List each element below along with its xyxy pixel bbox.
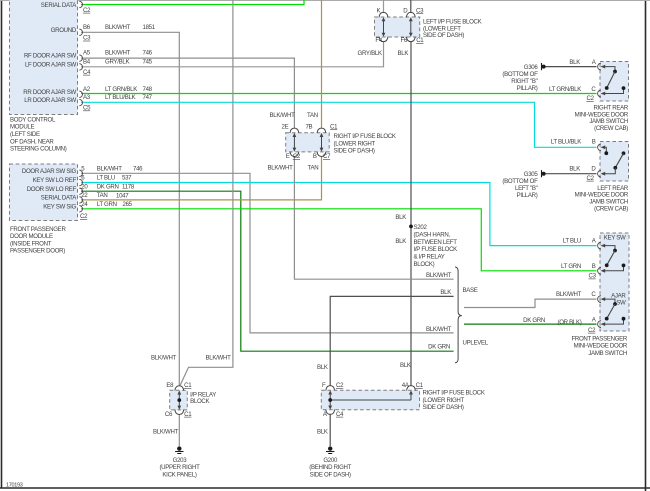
svg-text:PILLAR): PILLAR) xyxy=(517,85,538,92)
svg-text:C1: C1 xyxy=(184,411,192,418)
svg-text:1047: 1047 xyxy=(116,193,129,200)
svg-text:G200: G200 xyxy=(323,457,338,464)
svg-text:BLOCK: BLOCK xyxy=(190,398,209,405)
svg-text:C1: C1 xyxy=(416,382,424,389)
svg-text:(BOTTOM OF: (BOTTOM OF xyxy=(502,178,538,185)
svg-text:24: 24 xyxy=(81,201,88,208)
svg-text:I/P FUSE BLOCK: I/P FUSE BLOCK xyxy=(414,246,458,253)
svg-text:G203: G203 xyxy=(173,457,188,464)
svg-text:C2: C2 xyxy=(587,95,595,102)
svg-text:1178: 1178 xyxy=(122,183,135,190)
svg-text:265: 265 xyxy=(123,201,133,208)
svg-text:BLK/WHT: BLK/WHT xyxy=(153,429,179,436)
svg-text:BASE: BASE xyxy=(463,287,478,294)
svg-text:(LOWER RIGHT: (LOWER RIGHT xyxy=(423,397,465,404)
svg-text:LT GRN: LT GRN xyxy=(561,263,581,270)
svg-text:S202: S202 xyxy=(414,224,428,231)
svg-text:BLOCK): BLOCK) xyxy=(414,261,435,268)
svg-text:TAN: TAN xyxy=(308,165,319,172)
svg-text:LT BLU: LT BLU xyxy=(563,238,581,245)
svg-text:LT GRN/BLK: LT GRN/BLK xyxy=(105,86,137,93)
svg-text:BLK: BLK xyxy=(569,166,580,173)
svg-text:SIDE OF DASH): SIDE OF DASH) xyxy=(423,32,464,39)
svg-text:B: B xyxy=(313,153,317,160)
svg-text:(BOTTOM OF: (BOTTOM OF xyxy=(502,71,538,78)
svg-text:RR DOOR AJAR SW: RR DOOR AJAR SW xyxy=(23,89,76,96)
svg-text:DK GRN: DK GRN xyxy=(428,344,450,351)
svg-text:A2: A2 xyxy=(83,86,91,93)
svg-text:C2: C2 xyxy=(293,153,301,160)
svg-text:KICK PANEL): KICK PANEL) xyxy=(162,472,196,479)
svg-text:BETWEEN LEFT: BETWEEN LEFT xyxy=(414,239,458,246)
svg-text:22: 22 xyxy=(81,192,88,199)
svg-text:SERIAL DATA: SERIAL DATA xyxy=(41,2,77,9)
svg-text:BLK: BLK xyxy=(317,429,328,436)
svg-text:(CREW CAB): (CREW CAB) xyxy=(594,205,628,212)
svg-text:BLK: BLK xyxy=(440,289,451,296)
svg-text:(UPPER RIGHT: (UPPER RIGHT xyxy=(159,464,200,471)
svg-text:LF DOOR AJAR SW: LF DOOR AJAR SW xyxy=(25,62,77,69)
svg-text:BLK: BLK xyxy=(400,362,411,369)
svg-text:C3: C3 xyxy=(416,7,424,14)
svg-text:MODULE: MODULE xyxy=(10,124,35,131)
svg-text:BLK: BLK xyxy=(398,50,409,57)
svg-text:C4: C4 xyxy=(336,411,344,418)
svg-text:C5: C5 xyxy=(83,105,91,112)
svg-text:AJAR: AJAR xyxy=(611,292,626,299)
svg-text:C1: C1 xyxy=(330,123,338,130)
svg-text:LEFT "B": LEFT "B" xyxy=(515,185,538,192)
svg-text:537: 537 xyxy=(122,175,132,182)
svg-text:K: K xyxy=(377,7,381,14)
svg-text:STEERING COLUMN): STEERING COLUMN) xyxy=(10,146,67,153)
svg-text:745: 745 xyxy=(143,59,153,66)
svg-text:GROUND: GROUND xyxy=(51,27,77,34)
svg-text:F4: F4 xyxy=(375,37,382,44)
svg-text:TAN: TAN xyxy=(307,112,318,119)
svg-text:DOOR SW LO REF: DOOR SW LO REF xyxy=(27,186,77,193)
svg-text:RIGHT "B": RIGHT "B" xyxy=(511,78,537,85)
svg-text:GRY/BLK: GRY/BLK xyxy=(105,59,129,66)
svg-text:A5: A5 xyxy=(83,50,91,57)
svg-text:A3: A3 xyxy=(83,94,91,101)
svg-text:BLK: BLK xyxy=(395,238,406,245)
svg-text:C6: C6 xyxy=(165,411,173,418)
svg-text:B6: B6 xyxy=(83,24,91,31)
svg-text:(BEHIND RIGHT: (BEHIND RIGHT xyxy=(309,464,351,471)
svg-text:BLK/WHT: BLK/WHT xyxy=(105,24,131,31)
svg-text:DOOR AJAR SW SIG: DOOR AJAR SW SIG xyxy=(22,168,77,175)
svg-text:LT GRN: LT GRN xyxy=(97,201,117,208)
svg-text:GRY/BLK: GRY/BLK xyxy=(358,50,382,57)
svg-text:C2: C2 xyxy=(588,327,596,334)
svg-text:DK GRN: DK GRN xyxy=(523,317,545,324)
svg-text:MINI-WEDGE DOOR: MINI-WEDGE DOOR xyxy=(574,343,628,350)
svg-text:KEY SW: KEY SW xyxy=(604,235,626,242)
svg-text:UPLEVEL: UPLEVEL xyxy=(463,339,489,346)
svg-text:BLK/WHT: BLK/WHT xyxy=(151,354,177,361)
svg-text:FRONT PASSENGER: FRONT PASSENGER xyxy=(571,335,627,342)
svg-text:PILLAR): PILLAR) xyxy=(517,192,538,199)
svg-text:(DASH HARN,: (DASH HARN, xyxy=(414,232,451,239)
svg-text:E: E xyxy=(286,153,290,160)
svg-text:TAN: TAN xyxy=(97,192,108,199)
svg-text:G306: G306 xyxy=(524,64,539,71)
svg-text:PASSENGER DOOR): PASSENGER DOOR) xyxy=(10,248,65,255)
svg-text:F: F xyxy=(322,382,326,389)
svg-text:BLK: BLK xyxy=(395,214,406,221)
svg-text:C2: C2 xyxy=(83,7,91,14)
svg-text:C4: C4 xyxy=(83,69,91,76)
svg-text:KEY SW LO REF: KEY SW LO REF xyxy=(33,177,77,184)
svg-text:LT BLU/BLK: LT BLU/BLK xyxy=(551,139,582,146)
svg-text:746: 746 xyxy=(143,50,153,57)
svg-text:F6: F6 xyxy=(401,37,408,44)
svg-text:(OR BLK): (OR BLK) xyxy=(557,319,581,326)
svg-text:SERIAL DATA: SERIAL DATA xyxy=(41,195,77,202)
svg-text:1851: 1851 xyxy=(143,24,156,31)
svg-text:SIDE OF DASH): SIDE OF DASH) xyxy=(310,472,351,479)
svg-text:BLK/WHT: BLK/WHT xyxy=(426,326,452,333)
svg-text:BLK/WHT: BLK/WHT xyxy=(105,50,131,57)
svg-text:SW: SW xyxy=(616,300,626,307)
svg-text:BLK/WHT: BLK/WHT xyxy=(97,165,123,172)
svg-text:RF DOOR AJAR SW: RF DOOR AJAR SW xyxy=(24,53,77,60)
svg-text:FRONT PASSENGER: FRONT PASSENGER xyxy=(10,226,66,233)
svg-text:E8: E8 xyxy=(166,382,174,389)
svg-text:DK GRN: DK GRN xyxy=(97,183,119,190)
svg-text:C3: C3 xyxy=(83,35,91,42)
svg-text:C2: C2 xyxy=(336,382,344,389)
svg-text:C2: C2 xyxy=(80,213,88,220)
svg-text:B4: B4 xyxy=(83,59,91,66)
svg-text:RIGHT I/P FUSE BLOCK: RIGHT I/P FUSE BLOCK xyxy=(334,133,396,140)
svg-text:BLK/WHT: BLK/WHT xyxy=(206,354,232,361)
svg-text:20: 20 xyxy=(81,183,88,190)
svg-text:BODY CONTROL: BODY CONTROL xyxy=(10,116,56,123)
svg-text:BLK: BLK xyxy=(317,364,328,371)
svg-text:C7: C7 xyxy=(323,153,331,160)
svg-text:C1: C1 xyxy=(184,382,192,389)
svg-text:B: B xyxy=(592,263,596,270)
svg-text:170193: 170193 xyxy=(6,482,23,488)
svg-text:(LOWER RIGHT: (LOWER RIGHT xyxy=(334,140,376,147)
svg-text:(CREW CAB): (CREW CAB) xyxy=(594,125,628,132)
svg-text:OF DASH, NEAR: OF DASH, NEAR xyxy=(10,138,54,145)
svg-text:(LEFT SIDE: (LEFT SIDE xyxy=(10,131,40,138)
svg-text:SIDE OF DASH): SIDE OF DASH) xyxy=(334,147,375,154)
svg-text:746: 746 xyxy=(133,165,143,172)
svg-text:LT GRN/BLK: LT GRN/BLK xyxy=(549,86,581,93)
svg-text:BLK/WHT: BLK/WHT xyxy=(426,272,452,279)
svg-text:BLK/WHT: BLK/WHT xyxy=(556,291,582,298)
svg-text:2E: 2E xyxy=(282,123,289,130)
svg-text:C3: C3 xyxy=(589,273,597,280)
svg-text:JAMB SWITCH: JAMB SWITCH xyxy=(588,350,627,357)
svg-text:RIGHT I/P FUSE BLOCK: RIGHT I/P FUSE BLOCK xyxy=(423,390,485,397)
svg-text:DOOR MODULE: DOOR MODULE xyxy=(10,233,53,240)
svg-text:B: B xyxy=(592,139,596,146)
svg-text:(INSIDE FRONT: (INSIDE FRONT xyxy=(10,240,52,247)
svg-text:BLK/WHT: BLK/WHT xyxy=(268,165,294,172)
svg-text:747: 747 xyxy=(143,94,153,101)
svg-text:G305: G305 xyxy=(524,171,539,178)
svg-text:LT BLU/BLK: LT BLU/BLK xyxy=(105,94,136,101)
svg-text:BLK/WHT: BLK/WHT xyxy=(270,112,296,119)
svg-text:7B: 7B xyxy=(305,123,312,130)
svg-text:& I/P RELAY: & I/P RELAY xyxy=(414,254,445,261)
svg-text:748: 748 xyxy=(143,86,153,93)
svg-text:BLK: BLK xyxy=(569,59,580,66)
svg-text:SIDE OF DASH): SIDE OF DASH) xyxy=(423,404,464,411)
svg-text:LR DOOR AJAR SW: LR DOOR AJAR SW xyxy=(24,97,76,104)
svg-text:KEY SW SIG: KEY SW SIG xyxy=(43,203,76,210)
svg-text:C2: C2 xyxy=(587,175,595,182)
svg-text:LT BLU: LT BLU xyxy=(97,175,115,182)
